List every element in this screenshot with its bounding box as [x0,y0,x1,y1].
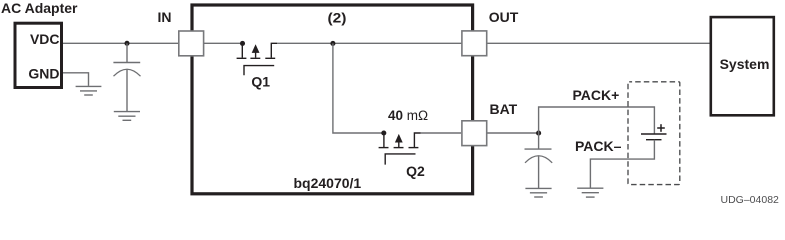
wire riser to Q2 [333,43,384,133]
battery pack dashed outline [628,82,680,185]
ground PACK- [577,188,603,197]
battery plus sign [657,124,665,132]
transistor Q2 [379,133,421,165]
node Q2 source junction [381,130,386,135]
capacitor C2 [525,133,553,188]
svg-text:AC Adapter: AC Adapter [1,0,78,16]
node Q1 source junction [240,41,245,46]
wire IN to Q1 [204,42,243,44]
svg-text:VDC: VDC [30,31,60,47]
svg-text:Q1: Q1 [251,74,270,90]
AC adapter box [15,23,62,87]
System box [711,17,774,115]
svg-text:GND: GND [28,66,59,82]
svg-text:UDG–04082: UDG–04082 [721,194,780,205]
pin square OUT [462,31,487,56]
svg-text:40 mΩ: 40 mΩ [388,108,428,123]
svg-text:OUT: OUT [489,9,519,25]
pin square BAT [462,121,487,146]
wire PACK- [590,140,654,188]
wire VDC to IN [63,42,179,44]
svg-text:System: System [720,56,770,72]
wire GND stub [63,73,89,86]
node BAT junction [536,131,541,136]
IC U1 bq24070/1 box [192,5,473,194]
svg-text:Q2: Q2 [406,163,425,179]
svg-text:bq24070/1: bq24070/1 [294,175,362,191]
transistor Q1 [237,43,277,75]
wire Q2 to BAT [421,132,462,134]
svg-text:BAT: BAT [490,101,518,117]
ground adapter [76,86,102,95]
battery long plate [641,133,667,135]
wire BAT to junction [488,132,539,134]
pin square IN [179,31,204,56]
ground C1 [114,112,140,121]
wire PACK+ [539,107,655,134]
ground C2 [525,188,551,197]
wire Q1 to OUT [277,42,462,44]
battery short plate [646,139,662,141]
svg-text:(2): (2) [328,9,347,25]
node input junction [124,41,129,46]
svg-text:PACK–: PACK– [575,138,622,154]
node (2) junction [330,41,335,46]
capacitor C1 [113,43,140,111]
wire OUT to System [488,42,711,44]
svg-text:IN: IN [158,9,172,25]
svg-text:PACK+: PACK+ [573,87,620,103]
